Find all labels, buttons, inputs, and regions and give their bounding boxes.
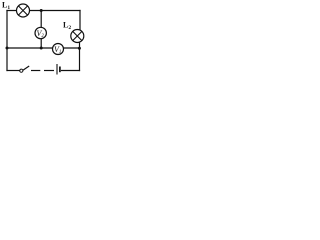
switch: [20, 66, 30, 72]
junction node left: [6, 47, 9, 50]
lamp L2: [71, 30, 84, 43]
voltmeter V2: [35, 27, 46, 39]
wire V2 branch vertical: [40, 11, 42, 49]
wire bottom left to switch: [7, 70, 20, 72]
wire right vertical upper: [79, 11, 81, 31]
wire top rail: [7, 10, 80, 12]
voltmeter V1: [53, 44, 64, 56]
junction node right: [78, 47, 81, 50]
wire right vertical lower: [79, 42, 81, 71]
wire middle horizontal: [7, 47, 80, 49]
lamp L1: [17, 4, 30, 17]
junction node V2 bottom: [40, 47, 43, 50]
wire dashed segment 2: [44, 70, 54, 72]
wire bottom right from battery: [62, 70, 80, 72]
wire left vertical: [6, 11, 8, 71]
battery cell: [57, 64, 60, 75]
wire dashed segment 1: [31, 70, 40, 72]
junction node top: [40, 9, 43, 12]
